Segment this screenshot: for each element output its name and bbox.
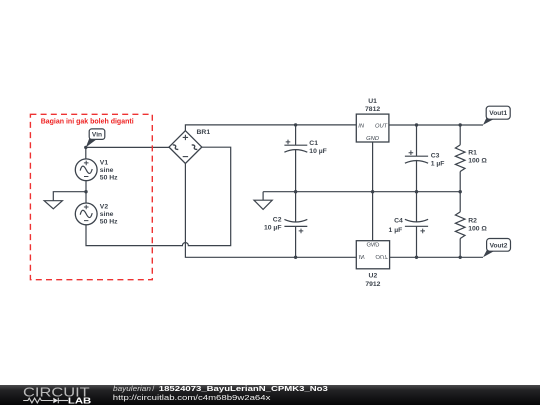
svg-text:C2: C2 <box>273 216 282 223</box>
wire C4 top lead <box>416 192 418 223</box>
svg-text:Vout2: Vout2 <box>490 242 508 249</box>
resistor R2 labels <box>468 218 487 233</box>
svg-text:10 µF: 10 µF <box>309 148 327 155</box>
wire BR1 bottom to lower rail to U2 IN <box>185 164 356 258</box>
wire R1 top lead <box>459 125 461 145</box>
regulator U1 7812 <box>356 98 389 142</box>
svg-text:BR1: BR1 <box>197 129 211 136</box>
wire ground stub in red box <box>53 192 86 201</box>
svg-text:IN: IN <box>358 123 365 129</box>
wire C4 bottom lead <box>416 226 418 257</box>
resistor R1 labels <box>468 150 487 165</box>
svg-text:sine: sine <box>100 167 114 174</box>
regulator U2 7912 (flipped) <box>356 240 389 288</box>
voltage source V2 <box>75 203 118 226</box>
wire mid ground rail <box>263 191 460 193</box>
svg-text:OUT: OUT <box>375 123 388 129</box>
wire U2 OUT rail to Vout2 <box>390 256 483 258</box>
wire Vin node to V1 top <box>85 147 87 159</box>
svg-text:1 µF: 1 µF <box>431 161 445 168</box>
svg-text:1 µF: 1 µF <box>389 227 403 234</box>
junction dots <box>84 123 462 259</box>
svg-text:GND: GND <box>366 240 379 246</box>
svg-text:GND: GND <box>366 136 379 142</box>
capacitor C2 labels <box>264 216 303 233</box>
svg-text:sine: sine <box>100 211 114 218</box>
bridge rectifier BR1 <box>169 129 210 164</box>
svg-text:Vin: Vin <box>92 132 102 139</box>
svg-text:bayulerian/18524073_BayuLerian: bayulerian/18524073_BayuLerianN_CPMK3_No… <box>113 384 328 393</box>
svg-text:10 µF: 10 µF <box>264 224 282 231</box>
wire ground stub mid <box>262 192 264 201</box>
capacitor C2 plates <box>284 225 307 227</box>
ground G2 triangle <box>254 200 272 209</box>
capacitor C3 plates <box>405 155 428 157</box>
wire V2 bottom to BR1 right (with hop) <box>86 147 231 245</box>
wire Vin node to BR1 left <box>86 146 169 148</box>
resistor R1 zigzag <box>455 145 465 172</box>
svg-text:C4: C4 <box>394 218 403 225</box>
svg-text:50 Hz: 50 Hz <box>100 219 118 226</box>
wire R2 bottom lead <box>459 239 461 258</box>
CircuitLab logo <box>23 384 91 405</box>
wire C1 bottom lead <box>295 150 297 192</box>
capacitor C4 labels <box>389 218 425 234</box>
svg-text:OUT: OUT <box>375 253 388 259</box>
svg-text:50 Hz: 50 Hz <box>100 175 118 182</box>
svg-text:V2: V2 <box>100 203 109 210</box>
wire C1 top lead <box>295 125 297 145</box>
svg-text:U2: U2 <box>369 273 378 280</box>
red annotation box <box>30 114 152 279</box>
svg-text:http://circuitlab.com/c4m68b9w: http://circuitlab.com/c4m68b9w2a64x <box>113 393 271 402</box>
svg-text:Bagian ini gak boleh diganti: Bagian ini gak boleh diganti <box>41 118 134 125</box>
svg-text:V1: V1 <box>100 159 109 166</box>
node flag Vin <box>86 129 105 148</box>
svg-text:C1: C1 <box>309 140 318 147</box>
wire U1 GND to mid rail to U2 GND <box>372 142 374 241</box>
svg-text:100 Ω: 100 Ω <box>468 226 487 233</box>
wire R2 top lead <box>459 192 461 212</box>
resistor R2 zigzag <box>455 212 465 239</box>
wire BR1 top to top rail <box>185 125 356 131</box>
svg-text:100 Ω: 100 Ω <box>468 157 487 164</box>
svg-text:R1: R1 <box>468 150 477 157</box>
node flag Vout1 <box>483 106 510 125</box>
wire U1 OUT rail to Vout1 <box>389 124 483 126</box>
svg-text:Vout1: Vout1 <box>489 110 507 117</box>
ground G1 triangle <box>44 201 62 209</box>
voltage source V1 <box>75 159 118 182</box>
capacitor C3 labels <box>409 150 445 167</box>
capacitor C1 plates <box>284 144 307 146</box>
capacitor C4 plates <box>405 225 428 227</box>
wire C3 top lead <box>416 125 418 156</box>
svg-text:7812: 7812 <box>365 106 380 113</box>
svg-text:U1: U1 <box>368 98 377 105</box>
wire R1 bottom lead <box>459 172 461 192</box>
svg-text:C3: C3 <box>431 152 440 159</box>
wire C2 top lead <box>295 192 297 222</box>
wire C2 bottom lead <box>295 226 297 257</box>
svg-text:LAB: LAB <box>68 395 91 405</box>
svg-text:R2: R2 <box>468 218 477 225</box>
svg-text:IN: IN <box>359 253 366 259</box>
wire V1 bottom to V2 top <box>85 181 87 204</box>
svg-text:7912: 7912 <box>365 281 380 288</box>
footer bar <box>0 385 540 405</box>
wire C3 bottom lead <box>416 160 418 192</box>
capacitor C1 labels <box>286 140 327 155</box>
node flag Vout2 <box>483 239 511 258</box>
